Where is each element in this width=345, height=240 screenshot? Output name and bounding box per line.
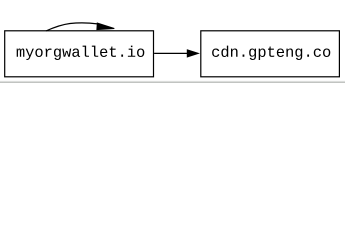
node myorgwallet.io box xyxy=(5,31,154,77)
self-loop edge on myorgwallet.io wire xyxy=(46,23,98,31)
self-loop edge arrowhead xyxy=(97,23,114,30)
edge myorgwallet.io to cdn.gpteng.co arrowhead xyxy=(187,50,198,57)
node cdn.gpteng.co label "cdn.gpteng.co" xyxy=(212,46,330,60)
node myorgwallet.io label "myorgwallet.io" xyxy=(17,46,145,60)
edge myorgwallet.io to cdn.gpteng.co wire xyxy=(154,52,188,54)
node cdn.gpteng.co box xyxy=(201,31,340,77)
bottom separator line xyxy=(0,81,345,83)
